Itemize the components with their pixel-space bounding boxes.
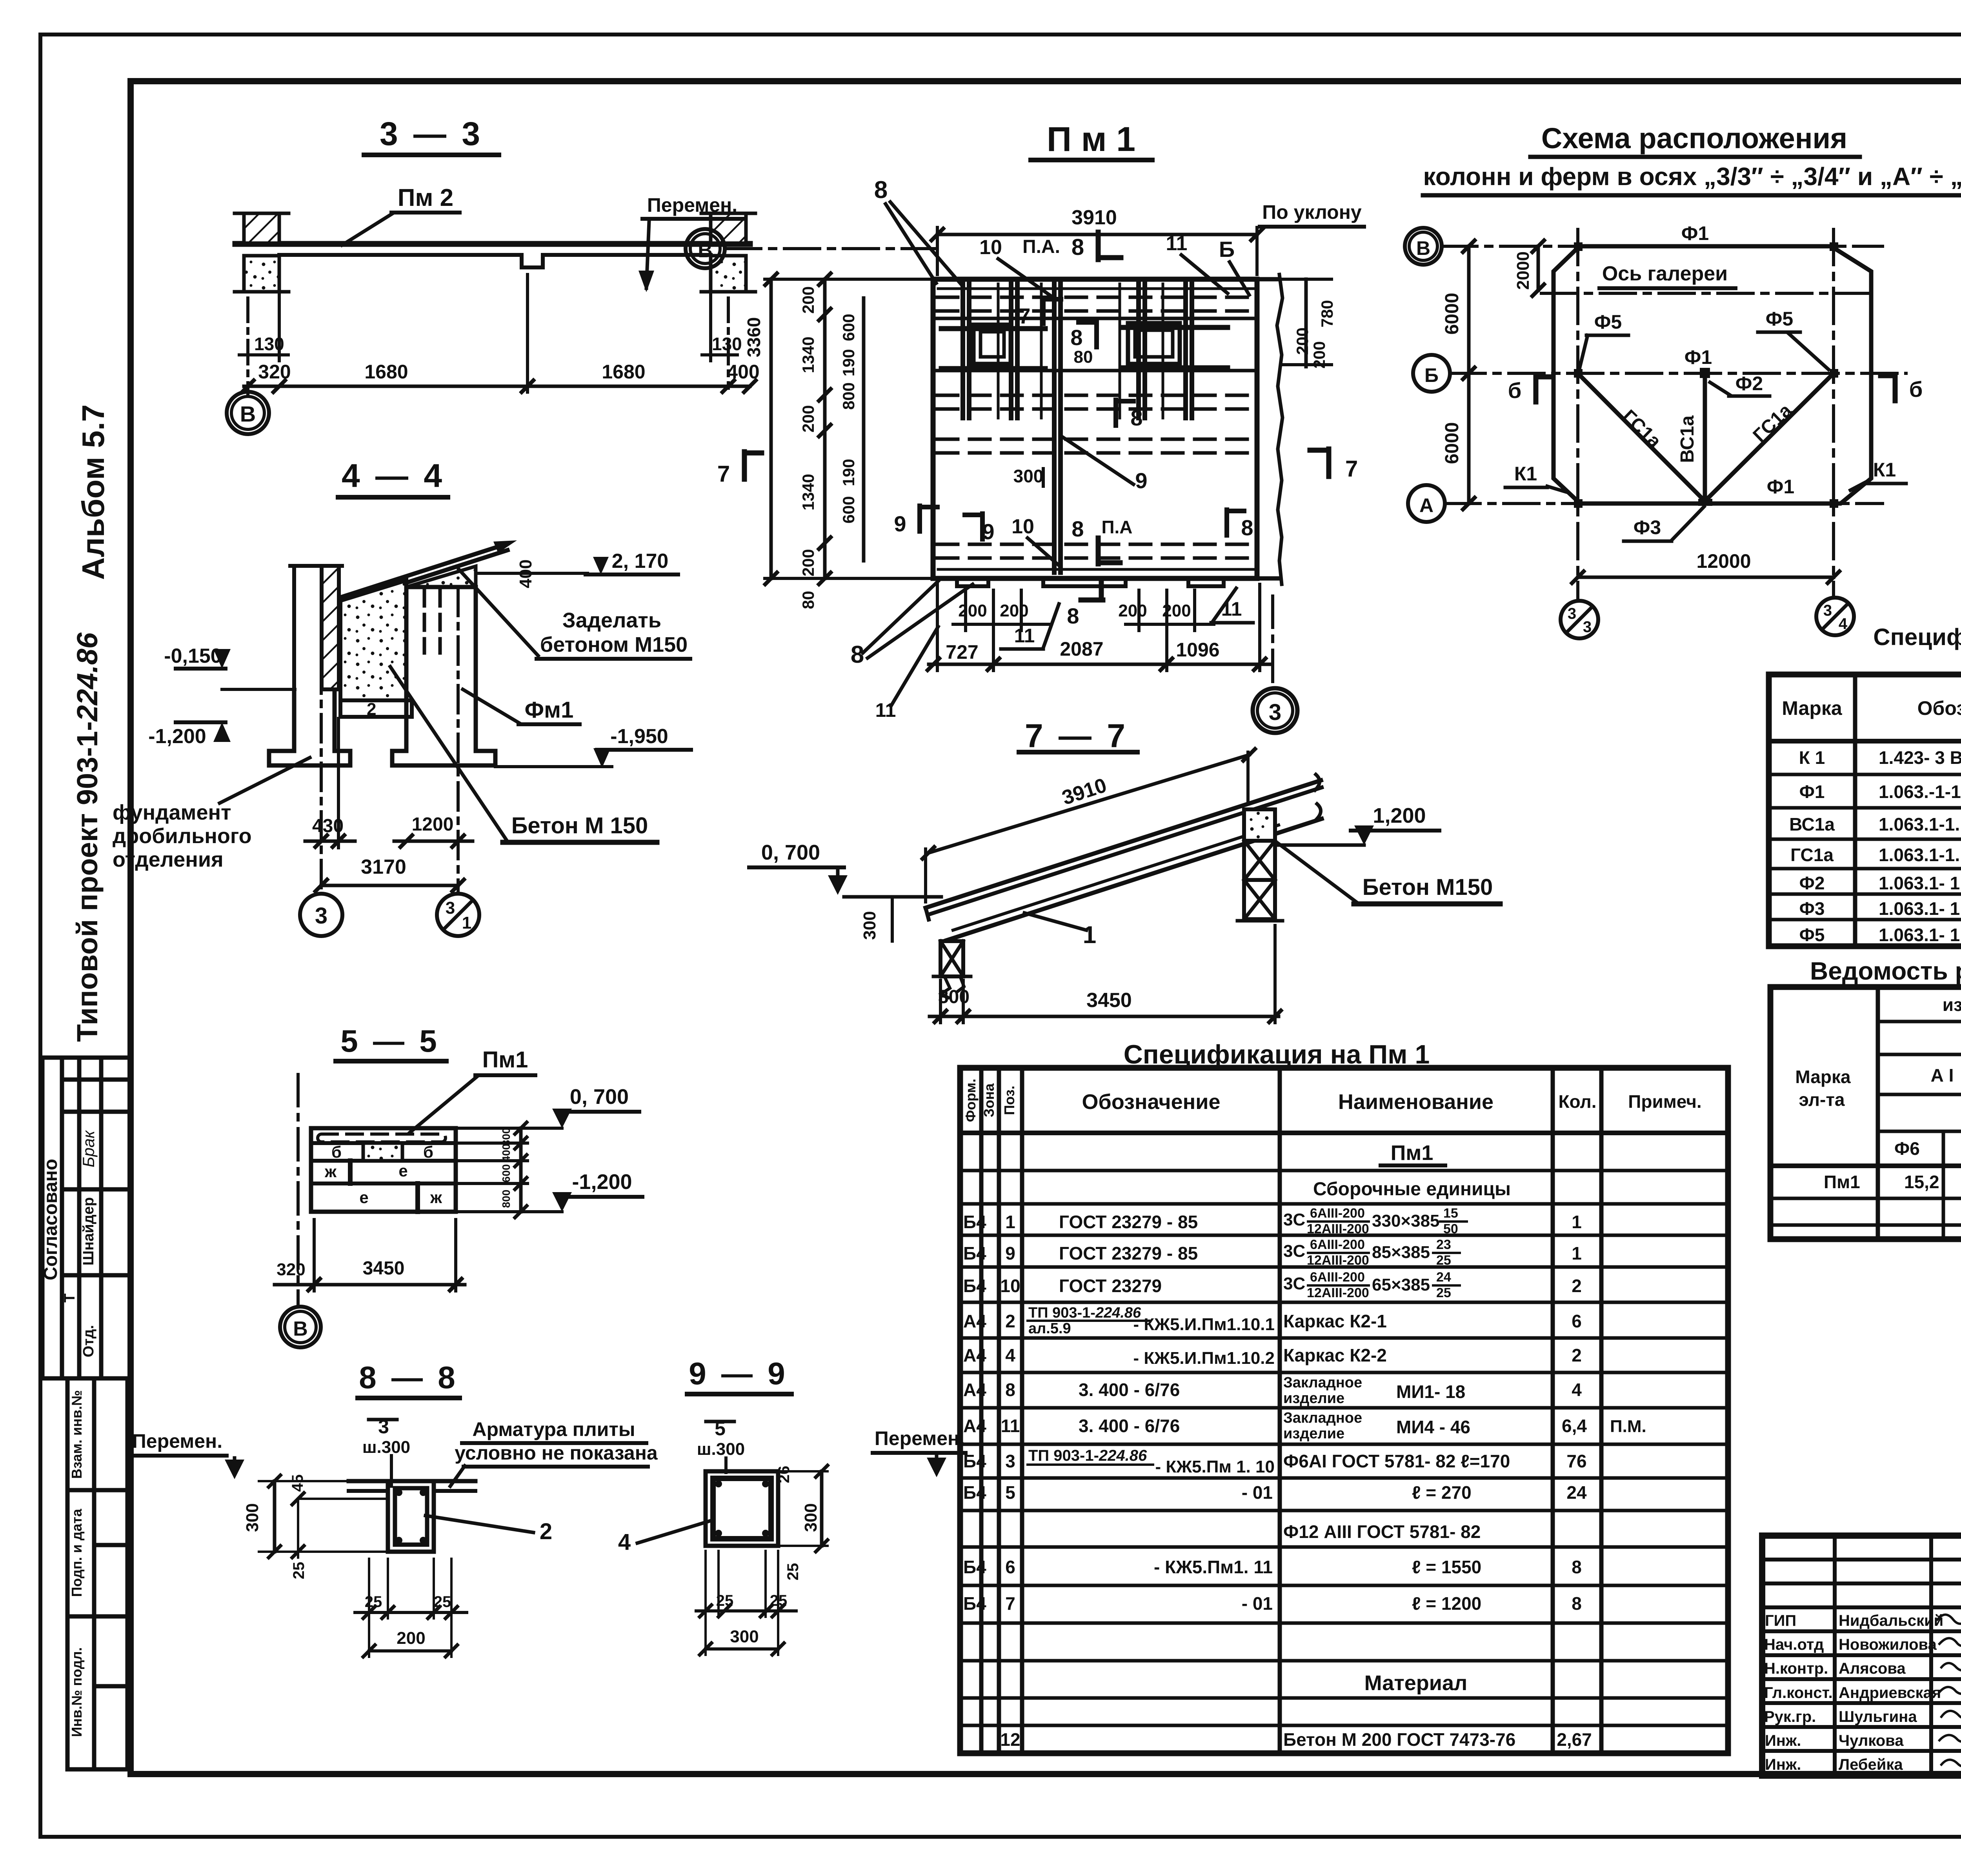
spec table grid bbox=[1769, 674, 1961, 946]
axis circle 3 bbox=[300, 894, 342, 936]
axis circle V left bbox=[686, 229, 725, 268]
svg-text:К1: К1 bbox=[1873, 459, 1896, 481]
svg-text:320: 320 bbox=[258, 361, 291, 383]
svg-text:Б4: Б4 bbox=[963, 1276, 986, 1296]
svg-text:Марка: Марка bbox=[1782, 697, 1843, 719]
svg-text:б: б bbox=[423, 1143, 433, 1161]
svg-text:изделия арматурные: изделия арматурные bbox=[1943, 994, 1961, 1015]
svg-text:Каркас К2-2: Каркас К2-2 bbox=[1283, 1345, 1387, 1365]
svg-text:Ф5: Ф5 bbox=[1594, 311, 1622, 333]
svg-text:ГОСТ 23279: ГОСТ 23279 bbox=[1059, 1276, 1162, 1296]
svg-text:200: 200 bbox=[1293, 327, 1312, 355]
svg-text:Алясова: Алясова bbox=[1839, 1660, 1906, 1677]
svg-text:ГИП: ГИП bbox=[1765, 1612, 1796, 1629]
right wall 3-3 bbox=[711, 213, 746, 243]
svg-text:Заделать: Заделать bbox=[562, 609, 661, 632]
svg-text:- КЖ5.И.Пм1.10.2: - КЖ5.И.Пм1.10.2 bbox=[1133, 1349, 1275, 1368]
svg-text:3360: 3360 bbox=[744, 317, 764, 357]
svg-text:-1,950: -1,950 bbox=[610, 725, 668, 748]
svg-text:26: 26 bbox=[775, 1466, 793, 1483]
svg-text:В: В bbox=[698, 239, 713, 262]
svg-text:Пм 2: Пм 2 bbox=[398, 184, 453, 211]
svg-text:11: 11 bbox=[1001, 1416, 1020, 1436]
svg-text:Ф5: Ф5 bbox=[1799, 925, 1825, 945]
svg-text:Пм1: Пм1 bbox=[482, 1047, 528, 1073]
svg-text:Наименование: Наименование bbox=[1338, 1090, 1493, 1114]
svg-text:Обозначение: Обозначение bbox=[1917, 697, 1961, 719]
svg-text:Б4: Б4 bbox=[963, 1482, 986, 1503]
svg-text:Ф2: Ф2 bbox=[1735, 373, 1763, 394]
svg-text:8: 8 bbox=[851, 641, 864, 668]
svg-text:200: 200 bbox=[799, 405, 817, 433]
svg-text:Шнайдер: Шнайдер bbox=[80, 1197, 97, 1265]
svg-text:12000: 12000 bbox=[1696, 550, 1751, 572]
steel table header texts bbox=[1795, 994, 1961, 1159]
svg-text:1,200: 1,200 bbox=[1373, 804, 1426, 827]
svg-text:Ф1: Ф1 bbox=[1767, 476, 1794, 498]
band edges bbox=[937, 317, 1255, 320]
svg-text:1.063.1- 1·00 СМ1: 1.063.1- 1·00 СМ1 bbox=[1879, 925, 1961, 945]
svg-text:600: 600 bbox=[839, 314, 858, 341]
svg-text:В: В bbox=[240, 402, 256, 426]
axis 5-5 bbox=[297, 1074, 300, 1306]
svg-text:6: 6 bbox=[1005, 1557, 1015, 1577]
svg-text:Бетон М150: Бетон М150 bbox=[1363, 874, 1493, 900]
svg-text:изделие: изделие bbox=[1283, 1390, 1344, 1407]
svg-text:А I: А I bbox=[1931, 1065, 1954, 1085]
svg-text:фундамент: фундамент bbox=[113, 801, 231, 824]
axis circle V 5-5 bbox=[280, 1307, 321, 1347]
svg-text:1096: 1096 bbox=[1176, 639, 1219, 661]
naimen rows 1,9,10 with fractions bbox=[1283, 1206, 1467, 1300]
svg-text:1: 1 bbox=[1083, 922, 1096, 949]
svg-text:Нидбальский: Нидбальский bbox=[1839, 1612, 1943, 1629]
svg-text:Пм1: Пм1 bbox=[1824, 1172, 1860, 1192]
svg-text:23: 23 bbox=[1436, 1237, 1451, 1252]
svg-text:6,4: 6,4 bbox=[1562, 1416, 1587, 1436]
svg-text:Нач.отд: Нач.отд bbox=[1764, 1636, 1824, 1653]
svg-text:Гл.конст.: Гл.конст. bbox=[1764, 1684, 1833, 1701]
svg-text:Закладное: Закладное bbox=[1283, 1374, 1362, 1391]
svg-text:80: 80 bbox=[1074, 347, 1093, 367]
svg-text:8: 8 bbox=[1070, 325, 1082, 350]
svg-text:400: 400 bbox=[516, 560, 535, 588]
axis circle V bbox=[1405, 228, 1442, 265]
dim 130 left bbox=[246, 298, 249, 394]
svg-text:3170: 3170 bbox=[361, 856, 406, 878]
svg-text:Каркас К2-1: Каркас К2-1 bbox=[1283, 1311, 1387, 1331]
svg-text:3: 3 bbox=[1583, 618, 1592, 636]
leader 2 bbox=[426, 1516, 533, 1532]
svg-text:Бетон М 150: Бетон М 150 bbox=[511, 813, 648, 838]
svg-text:А4: А4 bbox=[963, 1345, 986, 1365]
foundation left bbox=[269, 691, 350, 765]
svg-text:Ф2: Ф2 bbox=[1799, 873, 1825, 893]
kol column bbox=[1557, 1212, 1592, 1750]
right dims 780/200/200 bbox=[1304, 279, 1308, 367]
svg-text:ГС1а: ГС1а bbox=[1790, 845, 1834, 865]
svg-text:3: 3 bbox=[1823, 602, 1832, 619]
svg-text:Примеч.: Примеч. bbox=[1628, 1091, 1701, 1112]
svg-text:4: 4 bbox=[1839, 615, 1848, 633]
svg-text:Б: Б bbox=[1219, 237, 1235, 262]
svg-text:ℓ = 1200: ℓ = 1200 bbox=[1412, 1593, 1481, 1614]
svg-text:190: 190 bbox=[839, 459, 858, 486]
svg-text:Взам. инв.№: Взам. инв.№ bbox=[69, 1390, 85, 1479]
left margin: lower boxes bbox=[67, 1378, 127, 1769]
svg-text:П м 1: П м 1 bbox=[1047, 120, 1135, 158]
svg-text:Закладное: Закладное bbox=[1283, 1410, 1362, 1426]
svg-text:е: е bbox=[398, 1162, 407, 1180]
svg-text:К1: К1 bbox=[1514, 463, 1537, 485]
svg-text:Зона: Зона bbox=[981, 1083, 997, 1117]
svg-text:45: 45 bbox=[289, 1474, 306, 1492]
svg-text:800: 800 bbox=[500, 1190, 512, 1208]
svg-text:Марка: Марка bbox=[1795, 1067, 1851, 1087]
svg-text:Ф3: Ф3 bbox=[1799, 898, 1825, 919]
svg-text:В: В bbox=[1416, 237, 1430, 259]
svg-text:3 — 3: 3 — 3 bbox=[380, 115, 483, 152]
signatures bbox=[1937, 1614, 1961, 1767]
svg-text:Лебейка: Лебейка bbox=[1839, 1756, 1903, 1773]
svg-text:3450: 3450 bbox=[1086, 989, 1132, 1012]
right support 7-7 bbox=[1244, 809, 1275, 841]
svg-text:Кол.: Кол. bbox=[1558, 1091, 1596, 1112]
svg-text:65×385: 65×385 bbox=[1372, 1275, 1430, 1294]
svg-text:1200: 1200 bbox=[412, 814, 454, 835]
svg-text:4: 4 bbox=[1572, 1380, 1582, 1400]
svg-text:1.423- 3 В.1: 1.423- 3 В.1 bbox=[1879, 747, 1961, 768]
svg-text:200: 200 bbox=[799, 549, 817, 576]
svg-text:ал.5.9: ал.5.9 bbox=[1028, 1320, 1071, 1337]
svg-text:4: 4 bbox=[618, 1529, 631, 1555]
inner edge lines bbox=[938, 287, 1255, 290]
svg-text:8: 8 bbox=[874, 176, 888, 204]
svg-text:ГОСТ 23279 - 85: ГОСТ 23279 - 85 bbox=[1059, 1212, 1198, 1232]
svg-text:Материал: Материал bbox=[1364, 1671, 1468, 1695]
svg-text:Ф5: Ф5 bbox=[1766, 308, 1793, 330]
svg-text:200: 200 bbox=[799, 286, 817, 314]
svg-text:330×385: 330×385 bbox=[1372, 1211, 1440, 1231]
axes 4-4 bbox=[320, 569, 323, 894]
svg-text:е: е bbox=[359, 1188, 368, 1207]
svg-text:Перемен.: Перемен. bbox=[647, 194, 737, 216]
svg-text:Ф1: Ф1 bbox=[1684, 346, 1712, 368]
left wall 3-3 bbox=[244, 213, 279, 243]
svg-text:727: 727 bbox=[946, 641, 978, 663]
svg-text:2,67: 2,67 bbox=[1557, 1729, 1592, 1750]
svg-text:Отд.: Отд. bbox=[80, 1325, 97, 1357]
vert dim 6000x2 bbox=[1467, 246, 1471, 504]
svg-text:Подп. и дата: Подп. и дата bbox=[69, 1509, 85, 1597]
heavy rebar verticals bbox=[963, 284, 1192, 573]
right dim col 5-5 bbox=[519, 1128, 523, 1212]
svg-text:- КЖ5.Пм 1. 10: - КЖ5.Пм 1. 10 bbox=[1155, 1457, 1275, 1476]
svg-text:12АIII-200: 12АIII-200 bbox=[1307, 1222, 1369, 1236]
svg-text:К 1: К 1 bbox=[1799, 747, 1825, 768]
svg-text:1680: 1680 bbox=[602, 361, 645, 383]
svg-text:В: В bbox=[293, 1318, 308, 1340]
svg-text:400: 400 bbox=[727, 361, 759, 383]
svg-text:Брак: Брак bbox=[79, 1130, 98, 1167]
svg-text:3С: 3С bbox=[1283, 1274, 1305, 1293]
axis circle V bbox=[227, 392, 269, 434]
svg-text:130: 130 bbox=[712, 334, 742, 354]
svg-text:9 — 9: 9 — 9 bbox=[689, 1356, 788, 1391]
bottom notches bbox=[957, 578, 1224, 586]
svg-text:Перемен.: Перемен. bbox=[132, 1430, 222, 1452]
section 4-4 bbox=[113, 457, 691, 936]
svg-text:300: 300 bbox=[938, 987, 970, 1007]
svg-text:МИ1- 18: МИ1- 18 bbox=[1396, 1382, 1465, 1402]
svg-text:Спецификация к схеме расположе: Спецификация к схеме расположения колонн… bbox=[1873, 624, 1961, 650]
axis lines bbox=[1442, 229, 1906, 600]
heavy horizontal bars bbox=[941, 327, 1228, 369]
svg-text:эл-та: эл-та bbox=[1799, 1089, 1845, 1110]
svg-text:8: 8 bbox=[1071, 516, 1084, 541]
svg-text:5: 5 bbox=[1005, 1482, 1015, 1503]
svg-text:Б4: Б4 bbox=[963, 1212, 986, 1232]
layout scheme bbox=[1405, 122, 1961, 638]
svg-text:- 01: - 01 bbox=[1242, 1482, 1273, 1503]
svg-text:3: 3 bbox=[1269, 700, 1281, 725]
svg-text:80: 80 bbox=[799, 591, 817, 609]
svg-text:П.А: П.А bbox=[1101, 517, 1132, 537]
wall 4-4 bbox=[292, 566, 296, 691]
svg-text:ТП 903-1-224.86: ТП 903-1-224.86 bbox=[1028, 1447, 1147, 1464]
svg-text:- КЖ5.Пм1. 11: - КЖ5.Пм1. 11 bbox=[1154, 1557, 1273, 1577]
svg-text:3910: 3910 bbox=[1071, 206, 1117, 229]
svg-text:1.063.1- 1·00 СМ1: 1.063.1- 1·00 СМ1 bbox=[1879, 898, 1961, 919]
svg-text:6000: 6000 bbox=[1442, 293, 1463, 335]
svg-text:Б: Б bbox=[1424, 364, 1439, 386]
svg-text:8 — 8: 8 — 8 bbox=[359, 1360, 458, 1395]
slab 5-5 bbox=[311, 1128, 456, 1212]
svg-text:Т: Т bbox=[62, 1293, 78, 1302]
svg-text:9: 9 bbox=[1005, 1243, 1015, 1263]
svg-text:3: 3 bbox=[1568, 605, 1576, 622]
svg-text:1.063.1- 1. 00 СМ1: 1.063.1- 1. 00 СМ1 bbox=[1879, 873, 1961, 893]
svg-text:А4: А4 bbox=[963, 1380, 986, 1400]
svg-text:Ведомость расхода стали на эле: Ведомость расхода стали на элемент, кг bbox=[1810, 957, 1961, 985]
svg-text:Инж.: Инж. bbox=[1765, 1756, 1801, 1773]
svg-text:200: 200 bbox=[1118, 601, 1147, 620]
svg-text:Инв.№ подл.: Инв.№ подл. bbox=[69, 1647, 85, 1737]
svg-text:Поз.: Поз. bbox=[1001, 1085, 1017, 1115]
svg-text:10: 10 bbox=[979, 236, 1002, 259]
svg-text:Арматура плиты: Арматура плиты bbox=[472, 1418, 635, 1440]
svg-text:Шульгина: Шульгина bbox=[1839, 1708, 1917, 1725]
svg-text:7: 7 bbox=[1345, 456, 1358, 482]
svg-text:Андриевская: Андриевская bbox=[1839, 1684, 1941, 1701]
svg-text:2: 2 bbox=[540, 1519, 552, 1544]
svg-text:колонн и ферм в осях „3/3″ ÷ „: колонн и ферм в осях „3/3″ ÷ „3/4″ и „А″… bbox=[1423, 162, 1961, 191]
svg-text:200: 200 bbox=[397, 1629, 425, 1648]
axis circle 3/4 bbox=[1816, 598, 1854, 635]
left dim columns bbox=[769, 279, 773, 578]
svg-text:-0,150: -0,150 bbox=[164, 645, 222, 667]
svg-text:320: 320 bbox=[277, 1260, 305, 1279]
section 3-3 bbox=[227, 115, 760, 434]
svg-text:Пм1: Пм1 bbox=[1391, 1141, 1433, 1165]
svg-text:8: 8 bbox=[1067, 604, 1079, 628]
svg-text:ВС1а: ВС1а bbox=[1789, 814, 1835, 834]
svg-text:50: 50 bbox=[1443, 1222, 1458, 1236]
svg-text:200: 200 bbox=[958, 601, 987, 620]
svg-text:1: 1 bbox=[1572, 1243, 1582, 1263]
plan outline bbox=[933, 279, 1257, 578]
bottom small dims bbox=[953, 590, 1214, 671]
svg-text:300: 300 bbox=[500, 1128, 512, 1146]
dim 2000 bbox=[1537, 246, 1540, 290]
svg-text:8: 8 bbox=[1572, 1593, 1582, 1614]
svg-text:А4: А4 bbox=[963, 1311, 986, 1331]
svg-text:4: 4 bbox=[1005, 1345, 1015, 1365]
svg-text:10: 10 bbox=[1000, 1276, 1020, 1296]
axis circle 3/3 bbox=[1561, 601, 1598, 638]
section 5-5 bbox=[275, 1023, 642, 1347]
svg-text:400: 400 bbox=[500, 1144, 512, 1162]
svg-text:ℓ = 1550: ℓ = 1550 bbox=[1412, 1557, 1481, 1577]
svg-text:9: 9 bbox=[894, 511, 906, 536]
svg-text:Ф3: Ф3 bbox=[1634, 516, 1661, 538]
svg-text:12АIII-200: 12АIII-200 bbox=[1307, 1285, 1369, 1300]
svg-text:Сборочные единицы: Сборочные единицы bbox=[1313, 1179, 1511, 1200]
inclined beam bbox=[926, 780, 1321, 908]
title block left grid bbox=[1762, 1536, 1961, 1776]
slab 3-3 bbox=[235, 241, 750, 247]
svg-text:Инж.: Инж. bbox=[1765, 1732, 1801, 1749]
svg-text:1.063.1-1. 00 СМ1: 1.063.1-1. 00 СМ1 bbox=[1879, 845, 1961, 865]
svg-text:1: 1 bbox=[1005, 1212, 1015, 1232]
svg-text:1: 1 bbox=[462, 913, 471, 933]
svg-text:Новожилова: Новожилова bbox=[1839, 1636, 1937, 1653]
svg-text:0, 700: 0, 700 bbox=[761, 841, 820, 864]
svg-text:3: 3 bbox=[1005, 1451, 1015, 1471]
section 7-7 bbox=[749, 717, 1500, 1023]
svg-text:800: 800 bbox=[839, 382, 858, 410]
svg-text:- 01: - 01 bbox=[1242, 1593, 1273, 1614]
svg-text:200: 200 bbox=[1000, 601, 1028, 620]
sections 8-8 and 9-9 bbox=[129, 1356, 966, 1657]
9-9 square section bbox=[706, 1471, 778, 1546]
svg-text:2000: 2000 bbox=[1513, 251, 1533, 290]
svg-text:По уклону: По уклону bbox=[1262, 201, 1362, 223]
svg-text:ℓ = 270: ℓ = 270 bbox=[1412, 1482, 1472, 1503]
svg-text:МИ4 - 46: МИ4 - 46 bbox=[1396, 1417, 1470, 1437]
gallery outline octagon bbox=[1554, 246, 1871, 504]
svg-text:Бетон М 200 ГОСТ 7473-76: Бетон М 200 ГОСТ 7473-76 bbox=[1283, 1729, 1515, 1750]
svg-text:ГС1а: ГС1а bbox=[1749, 400, 1796, 446]
svg-text:11: 11 bbox=[1014, 625, 1035, 647]
svg-text:300: 300 bbox=[243, 1503, 262, 1532]
svg-text:Перемен.: Перемен. bbox=[875, 1427, 965, 1449]
svg-text:7: 7 bbox=[1018, 304, 1030, 328]
svg-text:Ф1: Ф1 bbox=[1799, 782, 1825, 802]
svg-text:Б4: Б4 bbox=[963, 1557, 986, 1577]
svg-text:76: 76 bbox=[1566, 1451, 1586, 1471]
svg-text:12: 12 bbox=[1000, 1729, 1020, 1750]
svg-text:ш.300: ш.300 bbox=[362, 1438, 410, 1457]
concrete wedge bbox=[340, 580, 406, 700]
svg-text:2: 2 bbox=[1572, 1276, 1582, 1296]
svg-text:условно не показана: условно не показана bbox=[455, 1442, 658, 1464]
svg-text:3С: 3С bbox=[1283, 1242, 1305, 1261]
svg-text:7 — 7: 7 — 7 bbox=[1025, 717, 1128, 754]
thin formwork verticals bbox=[998, 284, 1163, 418]
svg-text:24: 24 bbox=[1436, 1270, 1451, 1285]
svg-text:Ф12 АIII ГОСТ 5781- 82: Ф12 АIII ГОСТ 5781- 82 bbox=[1283, 1522, 1481, 1542]
svg-text:3: 3 bbox=[446, 898, 455, 918]
left margin: soglasovano box bbox=[42, 1058, 127, 1378]
svg-text:300: 300 bbox=[801, 1503, 820, 1532]
svg-text:дробильного: дробильного bbox=[113, 824, 252, 848]
svg-text:ВС1а: ВС1а bbox=[1677, 415, 1698, 463]
svg-text:8: 8 bbox=[1071, 234, 1084, 260]
steel table grid bbox=[1770, 987, 1961, 1239]
Pm1 spec grid bbox=[960, 1068, 1728, 1753]
svg-text:15,2: 15,2 bbox=[1904, 1172, 1939, 1192]
svg-text:ТП 903-1-224.86: ТП 903-1-224.86 bbox=[1028, 1305, 1141, 1321]
svg-text:600: 600 bbox=[839, 496, 858, 524]
hidden dashed lines bbox=[937, 297, 1255, 558]
axis circle B bbox=[1413, 355, 1450, 392]
svg-text:9: 9 bbox=[1135, 468, 1147, 493]
svg-text:11: 11 bbox=[1221, 598, 1242, 620]
svg-text:б: б bbox=[1508, 378, 1522, 403]
8-8 T section bbox=[349, 1479, 475, 1483]
spec table rows bbox=[1789, 747, 1961, 945]
svg-text:6000: 6000 bbox=[1442, 422, 1463, 464]
svg-text:бетоном М150: бетоном М150 bbox=[540, 633, 688, 656]
svg-text:300: 300 bbox=[730, 1627, 759, 1646]
axis circle 3/1 bbox=[437, 894, 479, 936]
steel table data bbox=[1824, 1172, 1961, 1192]
openings bbox=[973, 325, 1011, 364]
svg-text:12АIII-200: 12АIII-200 bbox=[1307, 1253, 1369, 1268]
svg-text:1340: 1340 bbox=[799, 336, 817, 373]
svg-text:Ф6: Ф6 bbox=[1894, 1138, 1920, 1159]
svg-text:Схема расположения: Схема расположения bbox=[1541, 122, 1847, 155]
title block frame bbox=[1762, 1536, 1961, 1776]
braces diagonals bbox=[1578, 373, 1705, 501]
svg-text:ГОСТ 23279 - 85: ГОСТ 23279 - 85 bbox=[1059, 1243, 1198, 1263]
svg-text:15: 15 bbox=[1443, 1206, 1458, 1221]
svg-text:300: 300 bbox=[1013, 466, 1044, 486]
svg-text:600: 600 bbox=[500, 1164, 512, 1183]
svg-text:П.М.: П.М. bbox=[1610, 1417, 1646, 1436]
svg-text:Согласовано: Согласовано bbox=[40, 1159, 61, 1280]
svg-text:3450: 3450 bbox=[363, 1258, 405, 1279]
svg-text:7: 7 bbox=[1005, 1593, 1015, 1614]
svg-text:200: 200 bbox=[1310, 341, 1328, 369]
svg-text:6АIII-200: 6АIII-200 bbox=[1310, 1270, 1365, 1285]
svg-text:7: 7 bbox=[717, 461, 730, 487]
svg-text:0, 700: 0, 700 bbox=[570, 1085, 629, 1109]
spec table header bbox=[1782, 691, 1961, 729]
svg-text:3. 400 - 6/76: 3. 400 - 6/76 bbox=[1079, 1416, 1180, 1436]
svg-text:1.063.1-1. 00 СМ1: 1.063.1-1. 00 СМ1 bbox=[1879, 814, 1961, 834]
svg-text:П.А.: П.А. bbox=[1022, 236, 1060, 257]
dim 130/400 right bbox=[727, 298, 730, 388]
svg-text:ж: ж bbox=[324, 1162, 337, 1181]
svg-text:85×385: 85×385 bbox=[1372, 1243, 1430, 1262]
svg-text:А: А bbox=[1419, 494, 1433, 516]
svg-text:Обозначение: Обозначение bbox=[1082, 1090, 1220, 1114]
svg-text:Чулкова: Чулкова bbox=[1839, 1732, 1904, 1749]
svg-text:2: 2 bbox=[1005, 1311, 1015, 1331]
svg-text:изделие: изделие bbox=[1283, 1425, 1344, 1442]
